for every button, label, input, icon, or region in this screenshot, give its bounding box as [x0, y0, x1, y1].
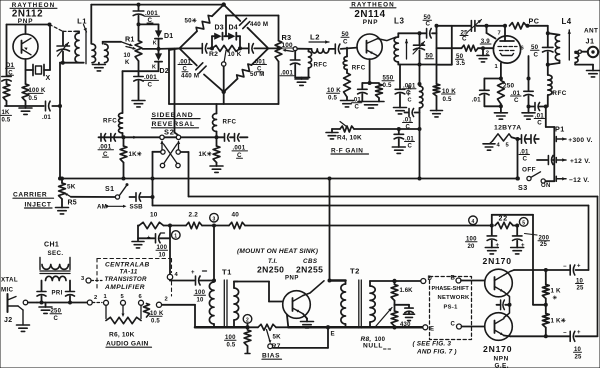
- transformer T2: [341, 267, 375, 329]
- label Q1 RAYTHEON 2N112 PNP: [10, 2, 57, 25]
- svg-text:2: 2: [94, 295, 97, 301]
- resistor 1K* sideband: [199, 137, 220, 166]
- label 2N250 2N255 PNP: [257, 264, 323, 281]
- svg-text:250: 250: [503, 83, 515, 90]
- potentiometer R6 10K AUDIO GAIN: [106, 305, 152, 347]
- svg-text:4: 4: [175, 272, 179, 278]
- potentiometer R5 5K: [59, 177, 77, 207]
- svg-text:2: 2: [486, 51, 489, 57]
- wire bridge mid left: [179, 47, 201, 49]
- trimmer capacitor 25 C: [460, 20, 505, 43]
- svg-text:2: 2: [165, 297, 168, 303]
- wire left column: [6, 25, 8, 77]
- svg-text:AMPLIFIER: AMPLIFIER: [104, 284, 145, 291]
- svg-text:S3: S3: [518, 183, 528, 192]
- label CENTRALAB TA-11: [104, 262, 150, 292]
- svg-text:C: C: [534, 51, 539, 58]
- svg-text:5: 5: [506, 143, 510, 149]
- svg-text:R·F GAIN: R·F GAIN: [331, 147, 363, 154]
- terminal pin 3: [81, 276, 102, 283]
- capacitor .01 emitter bypass: [352, 83, 370, 111]
- svg-text:J1: J1: [586, 37, 595, 46]
- svg-text:430: 430: [400, 322, 411, 328]
- svg-text:TRANSISTOR: TRANSISTOR: [105, 276, 147, 283]
- node bridge top vertex: [222, 2, 226, 6]
- svg-text:MIC: MIC: [1, 287, 13, 294]
- ground heater: [483, 144, 495, 150]
- svg-text:25: 25: [577, 286, 585, 292]
- svg-text:C: C: [426, 20, 431, 27]
- capacitor 440M upper-right: [224, 5, 269, 49]
- svg-text:C: C: [148, 82, 153, 89]
- potentiometer R3 100: [275, 33, 294, 62]
- svg-text:C: C: [408, 98, 412, 104]
- capacitor .01 C screen byp: [511, 56, 534, 109]
- svg-text:R2: R2: [209, 51, 218, 58]
- capacitor interstage: [497, 300, 510, 310]
- capacitor 50 C to Q2: [329, 31, 357, 54]
- svg-text:0.5: 0.5: [2, 118, 11, 124]
- column x419.5 node: [418, 65, 422, 87]
- svg-text:K: K: [153, 41, 157, 47]
- capacitor CH1 left: [37, 281, 46, 305]
- capacitor .001 C lower: [134, 61, 159, 100]
- wire R7 wiper return: [273, 327, 328, 348]
- wire Q5 collector: [504, 270, 569, 275]
- svg-text:1: 1: [495, 64, 499, 70]
- svg-text:10: 10: [197, 297, 205, 303]
- svg-text:X: X: [46, 75, 51, 82]
- wire bus A -12V: [60, 177, 520, 181]
- diode D2: [152, 39, 169, 75]
- svg-text:C: C: [355, 105, 360, 111]
- svg-text:C: C: [343, 38, 348, 45]
- svg-text:OFF: OFF: [522, 167, 536, 174]
- crystal X: [26, 65, 51, 83]
- svg-text:L2: L2: [310, 33, 320, 42]
- wire D3 left drop: [210, 36, 214, 50]
- svg-text:NETWORK: NETWORK: [438, 295, 471, 301]
- svg-text:.01: .01: [42, 115, 51, 121]
- svg-text:1 K: 1 K: [551, 288, 562, 295]
- ground bias chain: [132, 101, 145, 107]
- svg-text:10 K: 10 K: [228, 51, 242, 58]
- svg-text:2N255: 2N255: [296, 264, 323, 274]
- svg-text:0.5: 0.5: [443, 96, 453, 103]
- wire column x214: [212, 226, 216, 283]
- svg-text:PRI: PRI: [52, 291, 63, 297]
- label 2N170 NPN GE: [483, 344, 512, 368]
- wire tank bottom: [60, 61, 84, 65]
- wire carrier to S2: [124, 136, 217, 139]
- svg-text:1: 1: [104, 294, 108, 300]
- capacitor D1 C: [2, 63, 15, 84]
- switch S2: [160, 135, 181, 168]
- svg-text:SSB: SSB: [130, 204, 144, 211]
- svg-text:0.5: 0.5: [29, 96, 38, 102]
- svg-text:CARRIER: CARRIER: [13, 192, 47, 199]
- node bus A x123: [122, 177, 126, 181]
- resistor 1.6K phase: [391, 281, 413, 301]
- resistor 10K 0.5 base: [327, 70, 351, 102]
- terminal +300V: [556, 137, 592, 145]
- svg-text:L1: L1: [77, 17, 87, 26]
- svg-text:−12 V.: −12 V.: [569, 177, 589, 184]
- wire T1 sec top: [234, 282, 283, 302]
- resistor 22 supply: [495, 216, 519, 229]
- svg-text:RFC: RFC: [552, 90, 566, 97]
- svg-text:0.5: 0.5: [383, 82, 393, 89]
- svg-text:10: 10: [124, 53, 132, 59]
- ground L3 bypass: [394, 108, 407, 114]
- svg-text:INJECT: INJECT: [25, 201, 52, 208]
- wire D4 right drop: [237, 36, 242, 50]
- wire L3 bottom: [398, 62, 452, 65]
- svg-text:✳: ✳: [553, 295, 558, 301]
- diode D4: [228, 24, 238, 40]
- svg-text:−: −: [563, 330, 567, 336]
- resistor 1K upper: [542, 268, 561, 301]
- terminal B: [451, 276, 485, 284]
- ground Q3: [301, 314, 314, 328]
- wire bus D: [245, 225, 492, 227]
- transistor Q2 2N114: [357, 34, 382, 59]
- svg-text:2N250: 2N250: [257, 264, 284, 274]
- svg-text:3: 3: [213, 216, 216, 222]
- svg-text:C: C: [408, 143, 413, 149]
- resistor 10K 0.5 grid leak: [433, 65, 456, 111]
- svg-text:10: 10: [159, 252, 167, 258]
- svg-text:440 M: 440 M: [181, 72, 199, 79]
- node carrier junction: [122, 135, 126, 139]
- svg-text:AND FIG. 7 ): AND FIG. 7 ): [416, 348, 457, 355]
- wire E line: [346, 325, 423, 329]
- ground J1: [587, 71, 600, 77]
- wire bridge mid l2: [208, 47, 212, 49]
- svg-text:P1: P1: [555, 125, 565, 134]
- switch S1: [105, 183, 129, 199]
- terminal pin 4 T1: [167, 272, 178, 280]
- svg-text:PS-1: PS-1: [444, 305, 459, 311]
- svg-text:E: E: [331, 331, 335, 338]
- svg-text:SEC.: SEC.: [48, 250, 64, 257]
- resistor 50 3.5 grid: [437, 45, 494, 67]
- wire T1 bottom: [195, 324, 250, 329]
- wire mic line: [37, 302, 87, 304]
- terminal circle 3: [210, 213, 219, 222]
- inductor L2: [309, 33, 329, 54]
- svg-text:+: +: [577, 264, 581, 270]
- transistor Q6 2N170: [485, 313, 513, 341]
- node sideband junction: [215, 135, 219, 139]
- svg-text:4: 4: [472, 219, 475, 225]
- svg-text:NPN: NPN: [494, 355, 509, 362]
- wire bus C: [153, 206, 589, 271]
- svg-text:3: 3: [81, 276, 85, 282]
- wire S2 left leg: [153, 151, 161, 153]
- svg-text:PC: PC: [529, 17, 540, 26]
- inductor RFC sideband: [213, 104, 237, 137]
- svg-text:50✳: 50✳: [185, 18, 198, 25]
- ground Q1: [19, 106, 32, 114]
- svg-text:C: C: [462, 36, 467, 43]
- wire T2 sec top: [370, 279, 421, 286]
- svg-text:(MOUNT ON HEAT SINK): (MOUNT ON HEAT SINK): [237, 248, 318, 255]
- svg-text:6: 6: [521, 46, 525, 52]
- svg-text:L3: L3: [394, 16, 405, 25]
- svg-text:5: 5: [121, 294, 125, 300]
- capacitor .001 C bridge right: [249, 44, 267, 73]
- resistor 100K 0.5 emitter: [22, 84, 46, 106]
- terminal circle 1: [172, 231, 181, 240]
- svg-text:B: B: [451, 276, 456, 282]
- terminal circle 5: [519, 218, 528, 227]
- ground Q2 base res: [341, 101, 354, 107]
- svg-text:E: E: [430, 326, 434, 332]
- svg-text:C: C: [523, 156, 528, 163]
- connector J2 XTAL MIC: [1, 277, 37, 326]
- terminal -12V: [556, 176, 589, 184]
- capacitor .01 bottom: [42, 101, 51, 121]
- svg-text:D1: D1: [164, 33, 173, 40]
- capacitor .001 C stub left: [98, 134, 123, 158]
- svg-text:S2: S2: [164, 127, 175, 136]
- svg-text:PNP: PNP: [285, 275, 299, 281]
- wire dashed tank top: [50, 25, 76, 32]
- node bus D end: [490, 224, 494, 228]
- node bridge bottom vertex: [222, 90, 226, 94]
- svg-text:2.2: 2.2: [189, 212, 199, 219]
- diode D3: [214, 24, 224, 40]
- resistor 2.2 divider: [186, 212, 216, 229]
- wire R3 to L2: [297, 48, 311, 50]
- svg-text:R5: R5: [68, 200, 77, 207]
- wire bus B: [189, 197, 598, 337]
- svg-text:2: 2: [246, 318, 249, 324]
- capacitor .001 C bridge left: [178, 44, 207, 73]
- svg-text:C: C: [537, 119, 542, 126]
- resistor 550 0.5: [370, 75, 394, 102]
- capacitor 200 25: [511, 226, 550, 254]
- svg-text:D3: D3: [215, 24, 224, 31]
- wire R4 to column: [354, 127, 420, 131]
- terminal E: [423, 325, 434, 333]
- wire bridge mid to R3: [254, 46, 280, 50]
- svg-text:0.5: 0.5: [328, 95, 338, 102]
- node 1K mid: [544, 299, 548, 314]
- wire D3-D4 mid up: [224, 16, 228, 37]
- wire plate to L4: [527, 26, 548, 47]
- svg-text:RFC: RFC: [352, 64, 366, 71]
- svg-text:1: 1: [174, 234, 177, 240]
- capacitor 50 C plate: [531, 31, 554, 66]
- svg-text:T2: T2: [350, 267, 360, 276]
- terminal circle 2: [243, 315, 252, 328]
- svg-text:CH1: CH1: [44, 242, 59, 249]
- svg-text:CENTRALAB: CENTRALAB: [105, 262, 150, 269]
- wire 22 box: [492, 215, 546, 305]
- terminal pin 2 T1: [156, 297, 195, 328]
- label see fig: [413, 340, 457, 355]
- svg-text:25: 25: [540, 242, 548, 248]
- box Centralab dashes: [97, 259, 172, 297]
- ground input filter: [132, 242, 144, 248]
- wire column x170: [169, 226, 171, 275]
- inductor L1: [75, 17, 108, 64]
- heater 12BY7A: [490, 125, 522, 149]
- svg-text:+: +: [147, 236, 151, 242]
- ground cathode: [494, 104, 507, 119]
- inductor RFC Q2 base: [343, 48, 366, 72]
- svg-text:TA-11: TA-11: [120, 269, 138, 276]
- svg-text:−: −: [563, 264, 567, 270]
- wire R5 wiper to S1: [71, 196, 116, 198]
- wire top bus y4.6: [91, 3, 223, 7]
- svg-text:12BY7A: 12BY7A: [494, 125, 522, 132]
- svg-text:RFC: RFC: [223, 118, 237, 125]
- inductor RFC carrier: [103, 71, 123, 137]
- capacitor .01 C RFC bypass: [403, 109, 420, 131]
- svg-text:RFC: RFC: [103, 117, 117, 124]
- inductor L4 secondary: [575, 50, 593, 71]
- wire modulator loop: [169, 16, 279, 105]
- svg-text:25: 25: [575, 354, 583, 360]
- wire L1 sec lead A: [90, 5, 92, 44]
- capacitor 100 10 input filter: [138, 226, 170, 259]
- terminal +12V: [556, 158, 590, 165]
- ground Q2 emitter: [358, 102, 384, 109]
- potentiometer R4 10K RF GAIN: [326, 122, 369, 155]
- wire feed to P1: [546, 107, 555, 128]
- svg-text:5: 5: [522, 221, 525, 227]
- svg-text:XTAL: XTAL: [1, 277, 18, 284]
- capacitor .001 C top: [133, 5, 159, 41]
- wire T2 prim bottom: [289, 325, 346, 337]
- svg-text:2N170: 2N170: [483, 344, 512, 354]
- svg-text:ANT: ANT: [584, 28, 598, 35]
- svg-text:G.E.: G.E.: [495, 363, 509, 368]
- ground sideband: [210, 166, 223, 172]
- svg-text:C: C: [54, 316, 59, 322]
- wire collector feed: [328, 179, 346, 283]
- svg-text:0.5: 0.5: [227, 342, 236, 348]
- ground R5: [56, 199, 69, 214]
- wire grid stub: [487, 26, 496, 39]
- resistor 250 cathode: [498, 81, 515, 107]
- trimmer capacitor osc: [57, 31, 70, 62]
- wire bottom y106: [5, 105, 60, 107]
- wire Q6 emitter: [504, 334, 569, 338]
- trimmer capacitor 50 L3: [413, 33, 434, 66]
- svg-text:R1: R1: [125, 35, 135, 44]
- svg-text:10: 10: [150, 212, 158, 219]
- wire column x60: [58, 63, 62, 181]
- svg-text:D2: D2: [160, 68, 169, 75]
- svg-text:C: C: [514, 97, 519, 104]
- wire shunt bottom: [295, 77, 309, 79]
- ground R4 cap: [392, 147, 405, 153]
- svg-text:.01: .01: [472, 97, 482, 104]
- resistor 3.9 screen: [480, 38, 491, 56]
- resistor 10K 0.5 audio: [144, 304, 164, 325]
- ground screen: [477, 56, 489, 62]
- svg-text:K: K: [152, 64, 156, 70]
- resistor 50* upper-left: [179, 5, 223, 49]
- inductor RFC B+ feed: [548, 65, 567, 107]
- capacitor .001 C L3 bypass: [395, 65, 416, 108]
- resistor 1K 0.5: [1, 84, 12, 124]
- svg-text:1K✳: 1K✳: [129, 151, 143, 158]
- svg-text:RFC: RFC: [314, 62, 328, 69]
- connector P1: [554, 125, 564, 182]
- label SIDEBAND REVERSAL: [152, 112, 201, 136]
- wire grid RC drop: [437, 26, 452, 65]
- svg-text:PNP: PNP: [363, 19, 379, 26]
- ground screen byp: [522, 107, 535, 120]
- inductor RFC L2 shunt: [309, 49, 328, 78]
- svg-text:22: 22: [499, 216, 508, 223]
- capacitor phase mid: [395, 301, 415, 321]
- capacitor 100 10 electrolytic: [170, 270, 214, 303]
- wire S2 right leg: [180, 152, 188, 197]
- svg-text:( SEE FIG. 3: ( SEE FIG. 3: [413, 340, 452, 347]
- svg-text:5K: 5K: [273, 334, 282, 341]
- node R3 wiper: [293, 47, 297, 51]
- svg-text:1 K✳: 1 K✳: [551, 318, 567, 325]
- svg-text:3.5: 3.5: [456, 60, 466, 67]
- wire Q1 top: [7, 24, 50, 26]
- potentiometer R2 10K: [209, 45, 242, 104]
- label CARRIER INJECT: [13, 192, 54, 209]
- ground CH1 250 C: [39, 303, 62, 322]
- svg-text:+: +: [191, 270, 195, 276]
- capacitor .01 cathode: [472, 79, 501, 107]
- wire Q2 emitter: [368, 59, 372, 85]
- wire column x152.5: [151, 152, 155, 206]
- svg-text:1.6K: 1.6K: [400, 288, 414, 294]
- label 2N170 upper: [483, 256, 512, 266]
- capacitor 10 25 upper: [563, 264, 589, 292]
- svg-text:C: C: [451, 322, 456, 328]
- svg-text:6: 6: [139, 294, 143, 300]
- capacitor .001 C sideband: [217, 134, 248, 160]
- capacitor .001 shunt: [280, 51, 300, 78]
- terminal D: [421, 276, 433, 284]
- svg-text:S1: S1: [105, 186, 115, 193]
- inductor RFC plate feed: [408, 86, 423, 109]
- svg-text:5K: 5K: [67, 184, 76, 191]
- svg-text:40: 40: [232, 212, 240, 219]
- svg-text:0.5: 0.5: [151, 318, 160, 324]
- svg-text:R4, 10K: R4, 10K: [337, 134, 362, 141]
- resistor 430 phase: [391, 305, 411, 328]
- label Q2 RAYTHEON 2N114 PNP: [350, 2, 396, 26]
- svg-text:+: +: [577, 330, 581, 336]
- wire L3 top: [398, 31, 426, 35]
- resistor 40 divider: [214, 212, 245, 229]
- wire D2 bottom: [123, 70, 159, 72]
- capacitor 440M lower-left: [179, 48, 223, 91]
- svg-text:PHASE-SHIFT: PHASE-SHIFT: [432, 286, 470, 292]
- capacitor 100 20: [466, 226, 500, 254]
- capacitor .01 C feed pair: [529, 103, 548, 127]
- wire L1 sec lead B: [103, 42, 133, 47]
- terminal pin 2 box: [87, 295, 102, 305]
- capacitor 12V filter: [537, 156, 554, 165]
- resistor 1K* carrier: [120, 137, 142, 178]
- connector J1 ANT: [584, 28, 598, 58]
- switch S3 OFF ON: [518, 167, 554, 193]
